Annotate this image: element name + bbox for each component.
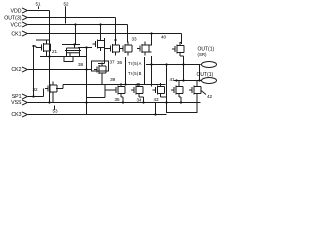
svg-text:CK3: CK3 xyxy=(11,112,21,118)
svg-text:CK1: CK1 xyxy=(11,31,21,37)
svg-text:VDD: VDD xyxy=(11,8,22,14)
svg-text:34: 34 xyxy=(136,98,142,103)
svg-text:Tr(5)A: Tr(5)A xyxy=(128,61,142,66)
svg-text:35: 35 xyxy=(114,97,120,102)
svg-text:VCC: VCC xyxy=(11,22,22,28)
svg-text:38: 38 xyxy=(78,62,84,67)
svg-text:52: 52 xyxy=(63,1,69,6)
svg-text:40: 40 xyxy=(161,35,167,40)
svg-text:39: 39 xyxy=(110,77,116,82)
svg-text:Tr(5)B: Tr(5)B xyxy=(128,71,142,76)
svg-text:42: 42 xyxy=(207,94,213,99)
svg-text:OUT(3): OUT(3) xyxy=(4,15,22,21)
svg-text:(SR): (SR) xyxy=(198,52,208,57)
svg-text:37: 37 xyxy=(109,59,115,64)
svg-text:21: 21 xyxy=(52,49,58,54)
svg-text:33: 33 xyxy=(131,37,137,42)
svg-text:53: 53 xyxy=(52,109,58,114)
svg-text:SP1: SP1 xyxy=(12,94,22,100)
svg-text:43: 43 xyxy=(153,97,159,102)
svg-text:51: 51 xyxy=(35,1,41,6)
svg-text:41: 41 xyxy=(169,77,175,82)
svg-text:36: 36 xyxy=(117,60,123,65)
svg-text:CK2: CK2 xyxy=(11,67,21,73)
svg-text:VSS: VSS xyxy=(11,100,22,106)
